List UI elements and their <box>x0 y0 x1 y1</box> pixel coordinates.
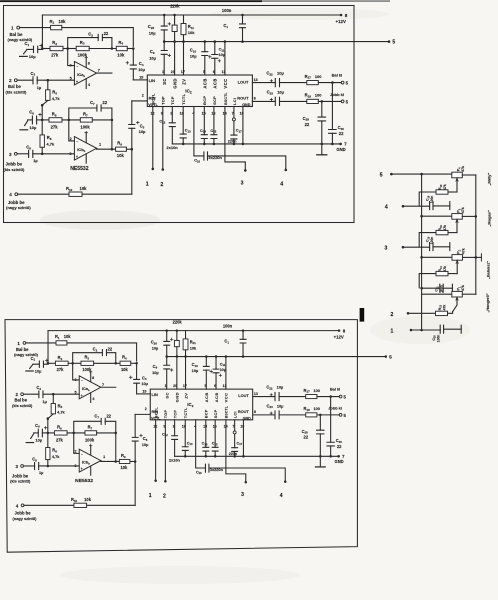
svg-text:+: + <box>81 467 83 471</box>
terminal 3 control <box>402 246 405 249</box>
wire pin4 down <box>196 420 206 468</box>
svg-text:47k: 47k <box>461 207 465 213</box>
wire pin9 down <box>164 420 166 481</box>
wire LOUT <box>252 82 275 84</box>
svg-text:Jobb be: Jobb be <box>14 511 31 516</box>
channel board 1 (top) <box>4 4 396 211</box>
node bus P3 <box>420 215 423 218</box>
svg-text:4,7k: 4,7k <box>52 454 60 459</box>
capacitor C30 <box>331 83 333 130</box>
wire R7 to node D <box>92 119 112 121</box>
terminal 3 <box>21 465 24 468</box>
svg-text:GND: GND <box>243 416 251 420</box>
svg-text:1: 1 <box>165 384 167 388</box>
svg-text:2: 2 <box>9 78 12 83</box>
ground stub at C1 <box>24 49 27 53</box>
capacitor C13 <box>184 420 186 447</box>
capacitor C11 <box>215 357 217 370</box>
node R5 bottom <box>47 432 50 435</box>
wire R3 to R4 <box>94 362 120 364</box>
svg-text:7: 7 <box>102 383 104 387</box>
svg-text:1: 1 <box>146 182 149 188</box>
svg-text:10µ: 10µ <box>277 70 284 75</box>
svg-text:VCC: VCC <box>224 393 229 403</box>
wire control left bus <box>421 174 423 330</box>
terminal 4 <box>21 504 24 507</box>
wire pin4 down <box>194 107 204 156</box>
op-amp U1b <box>74 137 96 161</box>
wire gnd to C6 <box>28 119 33 121</box>
capacitor C14 <box>203 107 205 135</box>
capacitor C16 <box>205 464 209 472</box>
node bus C1b <box>242 355 245 358</box>
svg-text:47k: 47k <box>461 248 465 254</box>
node output D <box>114 460 117 463</box>
capacitor C5 <box>134 441 136 461</box>
wire C22 to R17 <box>279 396 306 398</box>
svg-text:(kis szintű): (kis szintű) <box>6 89 28 94</box>
potentiometer P3 <box>452 214 463 220</box>
wire op-amp2 inverting input <box>74 433 79 453</box>
capacitor C20 <box>440 325 443 333</box>
node bus C17 <box>233 143 236 146</box>
svg-text:3: 3 <box>241 492 244 498</box>
svg-text:ACB: ACB <box>204 392 209 402</box>
svg-text:LIN: LIN <box>152 392 158 397</box>
node lead 2 <box>162 168 165 171</box>
resistor R15 <box>436 230 448 234</box>
resistor R2 <box>55 361 68 365</box>
resistor R8 <box>47 433 49 448</box>
channel board 2 (bottom copy) <box>10 319 392 521</box>
svg-text:22: 22 <box>102 100 107 105</box>
terminal 8 +12V <box>340 14 343 17</box>
node lead 3 <box>245 481 248 484</box>
svg-text:10k: 10k <box>80 186 88 191</box>
svg-text:+: + <box>81 394 83 398</box>
node bus C14 <box>205 455 208 458</box>
svg-text:GND: GND <box>175 392 180 402</box>
svg-text:100n: 100n <box>222 8 232 13</box>
node bus C30 <box>331 143 334 146</box>
wire P1 to right bus <box>462 293 476 295</box>
node R5 top <box>52 393 55 396</box>
node bus VCC <box>225 355 228 358</box>
node bus 220k <box>176 355 179 358</box>
terminal 7 GND <box>339 143 342 146</box>
pin 8 supply stub <box>85 59 87 68</box>
board 1 outline <box>4 6 355 223</box>
capacitor C26 <box>166 331 168 342</box>
terminal 7 GND <box>337 455 340 458</box>
svg-text:TCP: TCP <box>173 410 177 419</box>
wire gnd to C6 <box>34 432 39 434</box>
wire input3 to C8 <box>23 465 34 467</box>
wire LOUT <box>253 396 275 398</box>
svg-text:10k: 10k <box>64 334 72 339</box>
resistor R17 <box>306 394 317 398</box>
node rail C26 <box>163 14 166 17</box>
node R5 bottom <box>41 119 44 122</box>
svg-text:1: 1 <box>390 328 393 334</box>
wire ROUT <box>252 100 275 102</box>
capacitor C17 <box>233 121 235 135</box>
wire op-amp2 output <box>101 460 120 463</box>
wire ground bus <box>175 455 339 457</box>
wire node D to output <box>111 120 113 149</box>
svg-text:TCTL: TCTL <box>181 93 186 104</box>
node R9/C5 <box>134 460 137 463</box>
svg-text:47k: 47k <box>443 184 447 190</box>
potentiometer P1 <box>452 291 463 297</box>
wire C19 to end bar <box>433 246 450 248</box>
terminal 3 <box>14 152 17 155</box>
potentiometer P4 <box>452 172 463 178</box>
svg-text:10µ: 10µ <box>149 55 156 60</box>
resistor R5 <box>47 80 49 90</box>
terminal Bal ki <box>339 395 342 398</box>
svg-text:17: 17 <box>183 384 187 388</box>
svg-text:100n: 100n <box>223 324 233 329</box>
ground stub at C6 <box>31 434 34 439</box>
wire C6 to R6 <box>37 119 49 121</box>
capacitor C8 <box>35 463 39 470</box>
node C28 top <box>321 100 324 103</box>
svg-text:1µ: 1µ <box>37 85 42 90</box>
svg-text:(kis szintű): (kis szintű) <box>12 403 33 408</box>
op-amp U1b <box>79 449 101 472</box>
wire R17 to Bal ki <box>317 396 339 398</box>
svg-text:(nagy szintű): (nagy szintű) <box>14 352 39 357</box>
capacitor C12 <box>171 107 173 123</box>
capacitor C23 <box>275 97 279 105</box>
node bus 220k <box>173 40 176 43</box>
wire R18 to Jobb ki <box>317 414 339 416</box>
svg-text:Jobb be: Jobb be <box>6 162 23 167</box>
svg-text:100k: 100k <box>85 437 95 442</box>
svg-text:5: 5 <box>380 172 383 178</box>
svg-text:4: 4 <box>280 182 283 188</box>
resistor R1 <box>51 25 62 29</box>
resistor R9 <box>116 147 127 151</box>
svg-text:–: – <box>81 452 83 456</box>
wire control right bus <box>475 175 477 294</box>
wire op-amp2 inverting input <box>69 120 75 141</box>
wire R3 to R4 <box>89 48 116 50</box>
wire term3 row <box>404 246 429 248</box>
node bus C11 <box>214 40 217 43</box>
wire C4 to LIN <box>133 79 147 81</box>
capacitor C8 <box>29 150 33 157</box>
svg-text:1: 1 <box>103 455 105 459</box>
svg-text:TOP: TOP <box>161 96 166 105</box>
wire C5 column down to input4 row <box>134 461 136 505</box>
resistor R3 <box>81 361 94 365</box>
terminal 1 <box>23 342 26 345</box>
svg-text:–: – <box>81 379 83 383</box>
svg-text:10k: 10k <box>117 153 125 158</box>
svg-text:8: 8 <box>254 97 256 101</box>
svg-text:3: 3 <box>9 152 12 157</box>
wire +12V rail <box>42 14 341 16</box>
svg-text:3: 3 <box>384 246 387 252</box>
svg-text:22: 22 <box>337 444 342 449</box>
svg-text:19: 19 <box>142 390 146 394</box>
svg-text:BCTL: BCTL <box>154 407 158 419</box>
control board (potentiometers) <box>380 166 492 342</box>
capacitor C4 <box>136 363 138 379</box>
svg-text:2: 2 <box>142 93 144 97</box>
wire rail drop to R2 node <box>47 331 49 364</box>
svg-text:10µ: 10µ <box>141 381 148 386</box>
svg-text:8: 8 <box>254 410 256 414</box>
node bus C21 <box>420 287 423 290</box>
wire junction to R2 <box>48 362 55 364</box>
wiper P1 <box>453 297 457 312</box>
svg-text:5: 5 <box>205 384 207 388</box>
svg-text:100: 100 <box>315 74 322 79</box>
svg-text:NE5532: NE5532 <box>75 478 93 484</box>
svg-text:27k: 27k <box>57 367 65 372</box>
wire R16 leads <box>419 192 436 206</box>
svg-text:10µ: 10µ <box>152 370 159 375</box>
wire input1 to R1 <box>26 342 56 344</box>
resistor R6 <box>49 118 62 122</box>
IC U2 (IC2) <box>147 75 252 107</box>
wire aux bus to terminal 5 <box>167 356 386 358</box>
wire P4 to right bus <box>462 174 476 176</box>
svg-text:TCP: TCP <box>170 96 175 105</box>
terminal 2 <box>14 79 17 82</box>
capacitor C16 <box>204 152 208 160</box>
capacitor C23 <box>275 411 279 419</box>
svg-text:TCTL: TCTL <box>184 407 188 418</box>
svg-text:2: 2 <box>163 493 166 499</box>
svg-text:Bal be: Bal be <box>16 347 29 352</box>
svg-text:4,7k: 4,7k <box>46 142 55 147</box>
op-amp U1a <box>74 61 96 85</box>
svg-text:100n: 100n <box>430 196 434 204</box>
svg-text:GND: GND <box>242 103 251 107</box>
wire term5 to P4 <box>393 173 452 175</box>
wire C5 column down to input4 row <box>131 149 133 194</box>
wire input4 to R10 <box>24 504 74 506</box>
capacitor C22 <box>275 393 279 401</box>
wire pin9 down <box>162 107 164 170</box>
node lead 4 <box>285 169 288 172</box>
svg-text:Jobb be: Jobb be <box>8 200 25 205</box>
wire ground bus <box>172 143 341 145</box>
capacitor C3 <box>33 77 37 84</box>
wire bus to C21 <box>422 287 440 289</box>
resistor R18 <box>307 99 319 103</box>
svg-text:2: 2 <box>145 407 147 411</box>
wire R14 leads <box>419 274 436 288</box>
capacitor C6 <box>32 116 36 124</box>
wire P2 to right bus <box>463 256 476 258</box>
node rail C1b <box>241 14 244 17</box>
terminal pin7 <box>233 431 236 434</box>
svg-text:22: 22 <box>104 31 109 36</box>
wire junction to R2 <box>42 48 50 50</box>
svg-text:BCP: BCP <box>202 96 207 105</box>
svg-text:7: 7 <box>98 69 100 73</box>
wire R7 to node D <box>97 432 116 434</box>
svg-text:5: 5 <box>389 354 392 360</box>
node feedback A <box>71 362 74 365</box>
svg-text:–: – <box>76 64 78 68</box>
svg-text:100n: 100n <box>437 335 441 343</box>
wire C4 to LIN <box>137 393 151 395</box>
svg-text:10k: 10k <box>121 367 129 372</box>
wire pin10 down <box>242 107 244 144</box>
wire R13 to wiper <box>448 312 453 314</box>
svg-text:SC: SC <box>162 78 167 85</box>
capacitor C11 <box>214 42 216 55</box>
svg-text:LCI: LCI <box>234 411 238 418</box>
wire C2 loop <box>68 38 112 49</box>
svg-text:SC: SC <box>165 392 170 399</box>
terminal 5 control <box>390 173 393 176</box>
capacitor C12 <box>174 420 176 436</box>
wire bus to P1 <box>422 293 452 295</box>
wire C16 to lead 4 <box>208 156 286 169</box>
svg-text:BCP: BCP <box>205 409 209 418</box>
svg-text:ROUT: ROUT <box>237 96 249 101</box>
capacitor C21 <box>440 284 443 292</box>
wire C7 loop <box>69 108 112 120</box>
svg-text:11: 11 <box>223 384 227 388</box>
wiper P4 <box>456 178 458 192</box>
resistor R4 <box>120 361 131 365</box>
svg-text:7: 7 <box>232 425 234 429</box>
node bus C15 <box>214 455 217 458</box>
terminal 2 <box>21 393 24 396</box>
wire input1 to R1 <box>20 27 51 29</box>
svg-text:BSCTL: BSCTL <box>224 92 228 105</box>
svg-text:10µ: 10µ <box>138 67 145 72</box>
capacitor C1 100n <box>242 331 244 340</box>
resistor R2 <box>50 46 63 50</box>
node C30 top <box>329 395 332 398</box>
wire R9 to C5 <box>130 460 135 462</box>
node C28 top <box>319 414 322 417</box>
svg-text:100: 100 <box>314 406 320 411</box>
terminal 5 stub <box>388 40 391 43</box>
svg-text:„Mély”: „Mély” <box>487 173 492 186</box>
wire C23 to R18 <box>280 100 307 102</box>
svg-text:10µ: 10µ <box>277 90 284 95</box>
node rail 220k <box>173 14 176 17</box>
wire R6 to R7 <box>67 432 85 434</box>
node bus C28 <box>319 455 322 458</box>
node output D <box>111 148 114 151</box>
capacitor C3 <box>39 391 43 398</box>
terminal pin7 <box>232 118 235 121</box>
wire input3 to C8 <box>17 153 28 155</box>
node feedback D <box>114 432 117 435</box>
svg-text:ZV: ZV <box>181 79 186 85</box>
svg-text:1: 1 <box>149 493 152 499</box>
svg-text:19: 19 <box>139 76 143 80</box>
wire C2 loop <box>73 353 116 364</box>
wiper P2 <box>456 260 458 273</box>
scan ink blob at lower board right edge <box>360 308 365 322</box>
svg-text:47k: 47k <box>443 225 447 231</box>
wire R18 to Jobb ki <box>318 100 341 102</box>
svg-text:47k: 47k <box>443 305 447 311</box>
node bus R11 <box>184 355 187 358</box>
capacitor C13 <box>182 107 184 135</box>
wire pin7 stub <box>233 107 235 118</box>
svg-text:27k: 27k <box>51 53 59 58</box>
node bus VCC <box>224 40 227 43</box>
svg-text:2: 2 <box>390 312 393 318</box>
svg-text:(nagy szintű): (nagy szintű) <box>8 37 33 42</box>
wire C21 to end bar <box>443 287 452 289</box>
wire pin7 stub <box>234 420 236 431</box>
wire C8 to pin3 <box>33 153 75 155</box>
wire op-amp1 output <box>101 386 116 388</box>
svg-text:15: 15 <box>202 112 206 116</box>
wire pin10 down <box>242 420 244 456</box>
svg-text:1: 1 <box>162 70 164 74</box>
node bus R11 <box>182 40 185 43</box>
node lead 3 <box>244 169 247 172</box>
node right bus P2 <box>475 256 478 259</box>
potentiometer P2 <box>452 255 463 261</box>
node right bus P3 <box>475 215 478 218</box>
ground symbol <box>319 456 321 466</box>
svg-text:22: 22 <box>304 435 309 440</box>
capacitor C7 <box>101 418 105 424</box>
svg-text:3: 3 <box>241 181 244 187</box>
wire P3 to right bus <box>462 215 476 217</box>
node feedback D <box>111 119 114 122</box>
wire R9 to C5 <box>126 148 131 150</box>
terminal 2 control <box>407 312 410 315</box>
svg-text:10µ: 10µ <box>219 53 225 57</box>
wire R1 to node A <box>62 28 134 47</box>
svg-text:2: 2 <box>75 449 77 453</box>
svg-text:10µ: 10µ <box>277 385 284 390</box>
resistor R16 <box>436 190 448 194</box>
wire pin14 to lead 3 <box>226 420 246 482</box>
svg-text:10k: 10k <box>188 30 195 35</box>
svg-text:+12V: +12V <box>334 335 344 340</box>
svg-text:10µ: 10µ <box>35 438 42 443</box>
svg-text:1µ: 1µ <box>43 400 47 404</box>
node rail 220k <box>176 329 179 332</box>
wire bus to P2 <box>422 256 452 258</box>
ground stub at C6 <box>25 121 28 126</box>
svg-text:1: 1 <box>99 143 101 147</box>
svg-text:10k: 10k <box>190 345 197 350</box>
svg-text:10µ: 10µ <box>277 403 284 408</box>
wire node D to output <box>115 433 117 462</box>
resistor R10 <box>69 192 82 196</box>
wire C20 to end bar <box>444 328 462 330</box>
resistor R8 <box>41 120 43 135</box>
svg-text:„Magas”: „Magas” <box>487 210 492 226</box>
wire C1 links <box>27 48 42 50</box>
svg-text:8: 8 <box>345 13 348 18</box>
node bus term1 <box>420 329 423 332</box>
node feedback C <box>72 432 75 435</box>
wire pin12 down <box>152 107 154 169</box>
op-amp U1a <box>79 376 101 399</box>
node A (R1/R4/C4) <box>132 47 135 50</box>
